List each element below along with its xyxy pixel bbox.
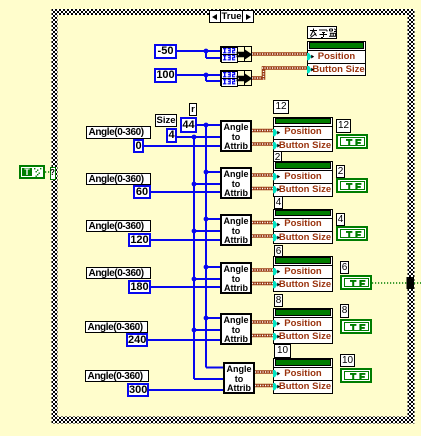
label Size (155, 114, 177, 127)
control label Angle(0-360) row 4 (86, 267, 151, 280)
label 12 (node row 1) (273, 100, 289, 114)
wire (205, 125, 207, 368)
wire junction (192, 229, 197, 234)
boolean constant TF row 5 (340, 319, 372, 334)
wire (151, 191, 220, 193)
wire junction (192, 277, 197, 282)
subVI Angle to Attrib row 4 (220, 262, 252, 294)
wire (252, 52, 308, 56)
label 6 (node row 4) (274, 245, 283, 258)
wire (252, 334, 275, 338)
wire (206, 317, 220, 319)
wire (206, 171, 220, 173)
wire (151, 239, 220, 241)
wire (252, 76, 264, 80)
boolean control terminal (case selector source) (19, 165, 45, 179)
numeric constant 240 (angle row 5) (126, 333, 148, 347)
label r (189, 103, 197, 116)
wire (206, 218, 220, 220)
case selector label True (209, 10, 254, 23)
numeric constant 0 (angle row 1) (133, 139, 144, 153)
wire (252, 142, 275, 146)
wire junction (204, 49, 209, 54)
boolean constant TF row 6 (340, 368, 372, 383)
numeric constant 4 (Size) (166, 128, 177, 143)
wire (194, 329, 220, 331)
wire (boolean) (372, 282, 407, 284)
wire (148, 339, 220, 341)
property node row 1 (Position / Button Size) (273, 117, 333, 153)
wire (206, 367, 224, 369)
wire (252, 129, 275, 133)
wire (194, 230, 220, 232)
label 4 (TF row 3) (336, 213, 345, 226)
wire (194, 378, 224, 380)
wire (197, 124, 220, 126)
boolean constant TF row 3 (336, 226, 368, 241)
property node row 3 (Position / Button Size) (273, 209, 333, 245)
wire (252, 282, 275, 286)
wire (194, 278, 220, 280)
numeric constant -50 (154, 44, 177, 59)
wire (176, 50, 220, 52)
control label Angle(0-360) row 5 (85, 321, 148, 334)
label 10 (node row 6) (274, 344, 291, 358)
boolean constant TF row 4 (340, 275, 372, 290)
subVI Angle to Attrib row 6 (223, 362, 255, 394)
wire junction (192, 328, 197, 333)
wire (194, 183, 220, 185)
subVI Angle to Attrib row 5 (220, 313, 252, 345)
wire (255, 384, 275, 388)
numeric constant 180 (angle row 4) (128, 280, 151, 294)
label 10 (TF row 6) (340, 354, 355, 367)
control label Angle(0-360) row 2 (86, 173, 151, 186)
wire (252, 320, 275, 324)
wire (206, 266, 220, 268)
numeric constant 120 (angle row 3) (128, 233, 151, 247)
case selector tunnel ? (50, 167, 56, 180)
wire (252, 173, 275, 177)
wire junction (204, 73, 209, 78)
label 6 (TF row 4) (340, 261, 349, 274)
wire (205, 75, 207, 81)
label 8 (TF row 5) (340, 304, 349, 318)
wire (262, 66, 308, 70)
wire junction (192, 182, 197, 187)
wire junction (204, 170, 209, 175)
convert to I32 pair + bundle (position) (220, 46, 252, 62)
wire (176, 74, 220, 76)
property node 文字盤 (Position / Button Size) (307, 41, 366, 76)
numeric constant 100 (154, 68, 177, 83)
subVI Angle to Attrib row 3 (220, 214, 252, 246)
wire (206, 80, 220, 82)
control label Angle(0-360) row 1 (86, 126, 151, 139)
wire junction (204, 316, 209, 321)
boolean constant TF row 1 (336, 134, 368, 149)
property node row 5 (Position / Button Size) (273, 308, 333, 344)
tunnel (output) (407, 277, 415, 289)
wire (boolean, outside) (414, 282, 421, 284)
label 12 (TF row 1) (336, 119, 351, 133)
numeric constant 60 (angle row 2) (133, 185, 151, 199)
label 8 (node row 5) (274, 294, 283, 307)
wire (252, 221, 275, 225)
wire junction (192, 135, 197, 140)
property node row 2 (Position / Button Size) (273, 161, 333, 197)
control label Angle(0-360) row 3 (86, 220, 151, 233)
wire (252, 268, 275, 272)
property node row 6 (Position / Button Size) (273, 358, 333, 394)
control label Angle(0-360) row 6 (85, 370, 149, 383)
wire junction (204, 217, 209, 222)
label 2 (TF row 2) (336, 165, 345, 178)
wire (252, 187, 275, 191)
wire (177, 136, 220, 138)
wire (255, 370, 275, 374)
wire (205, 51, 207, 58)
subVI Angle to Attrib row 1 (220, 120, 252, 152)
wire junction (204, 265, 209, 270)
wire (149, 389, 223, 391)
wire (252, 234, 275, 238)
label 2 (node row 2) (273, 151, 282, 164)
numeric constant 300 (angle row 6) (127, 383, 149, 397)
wire (206, 57, 220, 59)
wire (262, 66, 266, 80)
wire (boolean) (45, 171, 51, 173)
boolean constant TF row 2 (336, 178, 368, 193)
convert to I32 pair + bundle (size) (220, 70, 252, 86)
wire junction (204, 123, 209, 128)
wire (151, 286, 220, 288)
label 文字盤 (dial face) (307, 26, 337, 39)
wire (144, 145, 220, 147)
property node row 4 (Position / Button Size) (273, 256, 333, 292)
numeric constant 44 (r) (180, 117, 197, 133)
label 4 (node row 3) (274, 196, 283, 209)
subVI Angle to Attrib row 2 (220, 167, 252, 199)
wire (193, 137, 195, 379)
